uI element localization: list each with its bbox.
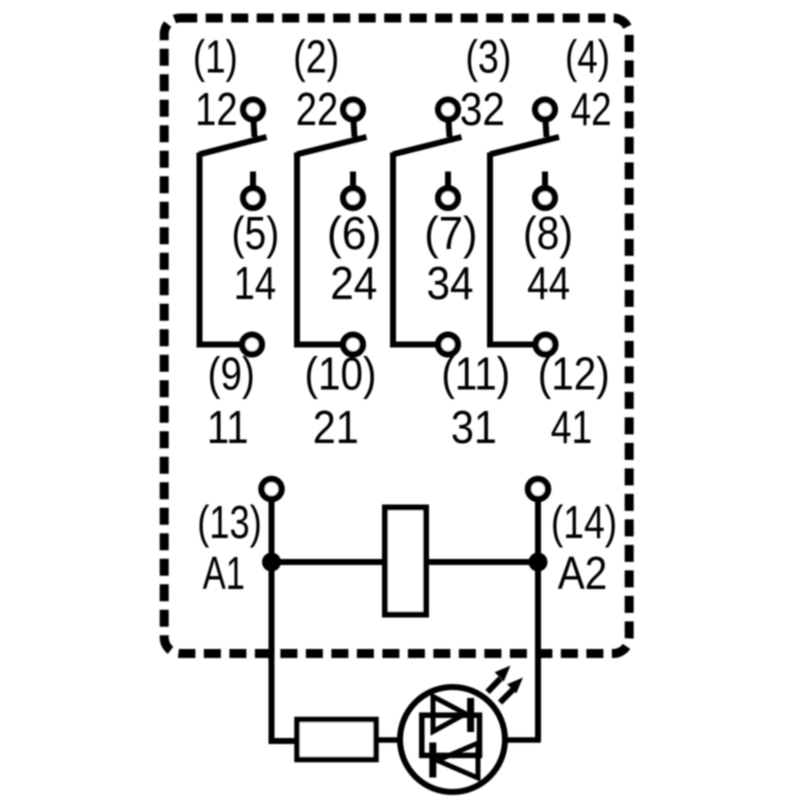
svg-text:(1): (1) (193, 30, 238, 82)
svg-text:(9): (9) (208, 348, 255, 399)
svg-text:(12): (12) (538, 349, 610, 400)
svg-text:(7): (7) (424, 207, 477, 259)
svg-text:22: 22 (296, 84, 338, 135)
svg-text:(10): (10) (305, 349, 377, 400)
svg-text:34: 34 (426, 258, 473, 309)
svg-text:(8): (8) (523, 209, 573, 260)
svg-text:A2: A2 (558, 549, 608, 600)
svg-text:42: 42 (571, 83, 612, 135)
svg-text:(13): (13) (197, 496, 262, 548)
svg-text:12: 12 (195, 84, 237, 135)
svg-text:(3): (3) (465, 31, 511, 82)
svg-text:A1: A1 (203, 547, 245, 599)
svg-text:(6): (6) (327, 207, 382, 259)
svg-text:32: 32 (460, 85, 505, 136)
svg-text:14: 14 (234, 258, 276, 309)
svg-text:44: 44 (527, 258, 570, 309)
svg-text:(4): (4) (565, 30, 610, 82)
svg-text:(14): (14) (551, 496, 617, 548)
svg-text:11: 11 (207, 402, 249, 453)
svg-text:24: 24 (330, 258, 377, 309)
svg-text:21: 21 (313, 402, 359, 454)
svg-text:31: 31 (451, 402, 497, 454)
svg-text:41: 41 (551, 401, 592, 453)
svg-text:(11): (11) (441, 349, 510, 400)
svg-text:(2): (2) (293, 31, 339, 82)
svg-text:(5): (5) (232, 208, 280, 260)
